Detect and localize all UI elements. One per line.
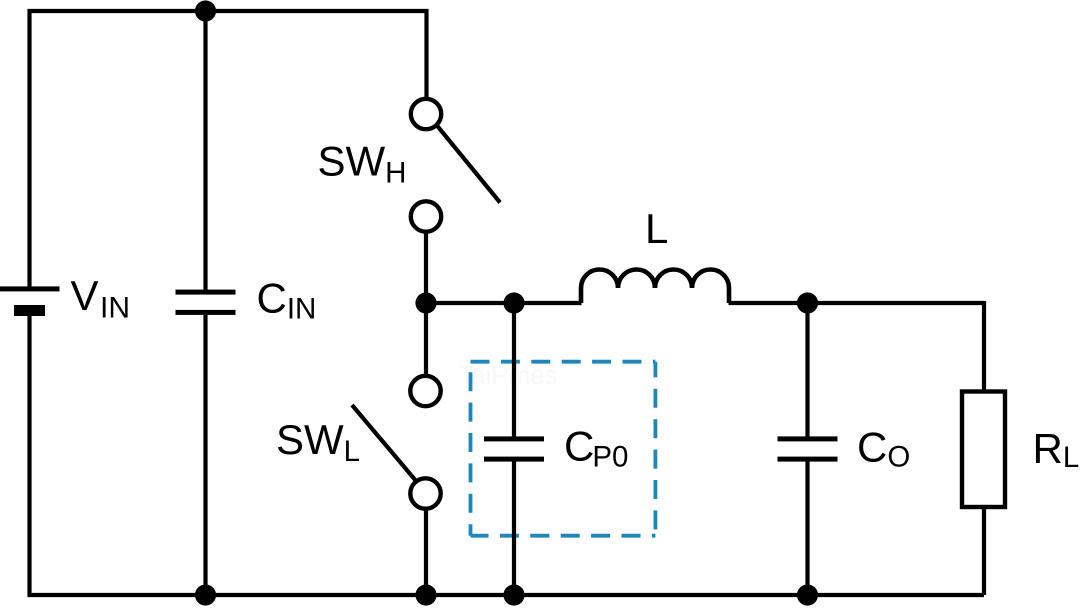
junction dot: bottom rail / C_IN [195,584,216,605]
junction dot: node row / C_O [797,292,818,313]
switch SW_L top contact circle [410,376,440,406]
inductor L [581,270,729,304]
capacitor C_O top lead [805,303,809,437]
junction dot: bottom rail / SW_L [415,584,436,605]
dashed box around C_P0 [471,362,656,536]
switch SW_H bottom contact circle [411,201,441,231]
switch SW_H blade [436,125,500,203]
switch SW_L bottom contact circle [410,478,440,508]
wire: resistor bottom lead [982,507,986,595]
junction dot: bottom rail / C_O [797,584,818,605]
junction dot: switch node [415,292,436,313]
svg-text:L: L [645,205,668,252]
capacitor C_IN top lead [203,11,207,290]
switch SW_H top contact circle [411,99,441,129]
junction dot: top rail / C_IN [195,0,216,21]
switch SW_L top lead [424,303,428,376]
switch SW_L blade [352,405,417,482]
capacitor C_IN plates [176,290,236,295]
junction dot: node row / C_P0 [503,292,524,313]
resistor R_L body [962,392,1005,508]
wire: switch node row (node to inductor) [426,301,582,305]
capacitor C_O plates [778,436,838,441]
battery V_IN short thick plate [14,305,45,316]
capacitor C_P0 top lead [512,303,516,437]
capacitor C_P0 bottom lead [512,462,516,596]
wire: inductor to right corner and down to resistor [729,303,985,392]
capacitor C_O bottom lead [805,462,809,596]
wire: SW_H bottom circle to switch node [424,232,428,304]
capacitor C_IN bottom lead [203,315,207,595]
wire: battery bottom to bottom-left corner [30,316,985,595]
junction dot: bottom rail / C_P0 [503,584,524,605]
wire: SW_L bottom circle to bottom rail [424,509,428,595]
svg-text:TaiPmes: TaiPmes [458,360,558,390]
capacitor C_P0 plates [484,436,544,441]
battery V_IN long plate [0,286,60,291]
wire: top rail with left drop and SW_H stub [30,11,427,287]
